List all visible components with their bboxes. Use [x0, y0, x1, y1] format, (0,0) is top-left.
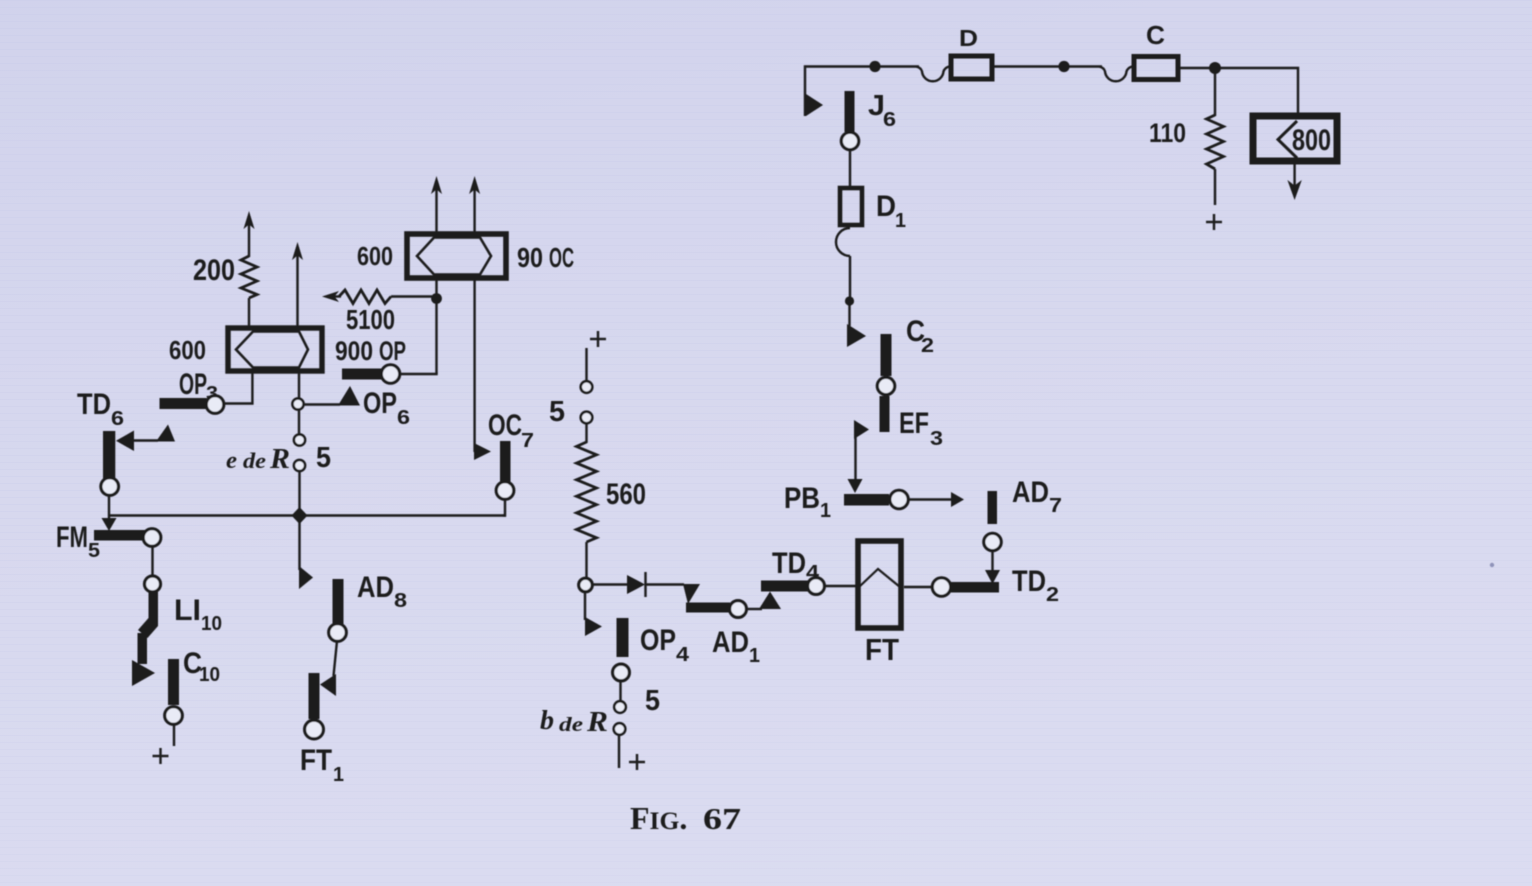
wire coil box down centre [298, 371, 300, 399]
label 90 OC [517, 242, 574, 273]
arrowhead at C2 [847, 324, 866, 347]
wire rail A to D hook [875, 65, 919, 67]
svg-text:D: D [959, 25, 978, 51]
svg-text:LI: LI [174, 594, 201, 627]
svg-text:FT: FT [865, 632, 899, 667]
resistor 200 [241, 256, 257, 298]
terminal circle lower [581, 412, 593, 424]
contact bar LI10 lower [138, 633, 148, 664]
wire plus down [585, 348, 587, 381]
label FM5 [56, 521, 100, 562]
main horizontal wire [108, 514, 506, 516]
wire D to junction B [994, 65, 1064, 67]
FT inner chevron [859, 569, 900, 587]
label 5 at 560 chain [549, 396, 565, 428]
heat coil C box [1134, 57, 1178, 80]
wire centre down [298, 409, 300, 435]
label 800 [1292, 124, 1331, 157]
label TD4 [772, 547, 820, 584]
wire OP4 down [619, 681, 621, 701]
label b de R [540, 705, 608, 738]
label 5100 [346, 304, 395, 335]
svg-text:TD: TD [1012, 565, 1046, 598]
svg-text:1: 1 [895, 210, 906, 232]
contact bar C2 [881, 334, 892, 376]
wire C10 down [173, 725, 175, 747]
svg-text:R: R [269, 444, 290, 475]
wire dot to arrowhead [848, 305, 850, 326]
svg-text:6: 6 [397, 407, 410, 429]
contact point circle FM5 [143, 529, 161, 547]
wire 110 down [1214, 169, 1216, 205]
wire 200 to coil box [248, 298, 250, 327]
svg-text:5: 5 [645, 685, 660, 717]
heat coil D box [951, 56, 992, 79]
armature triangle OP6 [338, 386, 360, 406]
svg-text:110: 110 [1149, 118, 1186, 148]
junction dot under D1 [845, 296, 854, 305]
svg-text:200: 200 [193, 254, 235, 287]
label OP6 [363, 387, 410, 429]
svg-text:1: 1 [333, 764, 344, 786]
label FT1 [300, 744, 344, 786]
svg-text:AD: AD [357, 571, 394, 604]
svg-text:10: 10 [201, 613, 222, 635]
lens inside 600 box [236, 332, 308, 368]
contact bar OP4 [617, 618, 629, 657]
svg-text:600: 600 [169, 335, 206, 365]
armature triangle under TD4 [759, 592, 781, 610]
svg-text:PB: PB [784, 482, 820, 515]
label 600 left [169, 335, 206, 365]
wire AD1 circle to TD4 triangle [747, 608, 762, 610]
arrowhead right of PB1 [951, 492, 964, 507]
contact bar J1 (J6 spring) [845, 91, 855, 132]
svg-text:TD: TD [77, 388, 111, 421]
svg-text:R: R [586, 707, 608, 738]
label OP3 [179, 368, 218, 405]
contact point circle OP3 [206, 396, 224, 414]
resistor 560 [577, 442, 597, 542]
heat coil hook before C [1099, 67, 1132, 82]
main junction diamond [292, 507, 308, 524]
svg-text:560: 560 [606, 478, 646, 511]
contact point circle AD8 [329, 624, 347, 642]
contact bar TD4 [761, 581, 808, 592]
diode CR1 [627, 572, 646, 597]
wire D1 down [849, 256, 851, 298]
wire 900OP to 90OC box [400, 373, 438, 375]
label OP4 [640, 624, 690, 666]
svg-text:8: 8 [394, 590, 407, 612]
label OC7 [488, 409, 534, 452]
junction dot at 5100 [431, 293, 442, 304]
contact bar FM5 [94, 530, 146, 541]
fuse D1 box [840, 188, 862, 225]
wire junction to diode [592, 583, 627, 585]
resistor 110 [1207, 115, 1224, 169]
wire OC7 to main wire [503, 499, 505, 516]
svg-text:7: 7 [521, 430, 534, 452]
svg-text:7: 7 [1049, 495, 1062, 517]
svg-text:EF: EF [899, 407, 929, 440]
contact point circle TD4 [808, 578, 825, 595]
svg-text:5100: 5100 [346, 304, 395, 335]
terminal circle b upper [614, 701, 626, 713]
label 200 [193, 254, 235, 287]
label FT [865, 632, 899, 667]
svg-text:2: 2 [921, 335, 934, 357]
label 110 [1149, 118, 1186, 148]
svg-text:4: 4 [676, 644, 690, 666]
contact bar 900OP [342, 369, 383, 380]
battery plus bottom of b chain [629, 754, 645, 770]
svg-text:4: 4 [806, 562, 820, 584]
battery plus under 110 [1206, 214, 1222, 230]
wire B to C hook [1064, 65, 1102, 67]
wire TD2 to FT [904, 586, 932, 588]
contact point circle PB1 [890, 490, 908, 508]
wire 560 to junction [585, 542, 587, 579]
contact bar AD8 [333, 579, 344, 624]
lens inside 90OC box [417, 238, 491, 275]
wire PB1 to arrow [908, 498, 952, 500]
arrowhead onto PB1 [848, 479, 863, 493]
label C2 [906, 315, 934, 357]
contact bar TD6 [103, 431, 115, 479]
armature arrowhead at AD8 [299, 566, 313, 589]
svg-text:AD: AD [712, 626, 749, 659]
arrow up from coil box [292, 242, 303, 327]
wire FM5 down [151, 547, 153, 577]
armature triangle LI10 [132, 660, 155, 686]
label AD8 [357, 571, 407, 612]
terminal circle e upper [294, 434, 305, 445]
contact point circle LI10 [145, 576, 161, 592]
retard coil 600 box [228, 328, 322, 371]
wire C to junction E [1178, 67, 1215, 69]
junction dot E on top rail [1209, 62, 1221, 74]
wire E down to resistor 110 [1214, 68, 1216, 116]
armature triangle at TD6 [116, 431, 134, 452]
svg-text:5: 5 [549, 396, 565, 428]
label EF3 [899, 407, 943, 450]
wire AD7 down [991, 551, 993, 572]
svg-text:1: 1 [820, 500, 831, 522]
svg-text:de: de [559, 714, 583, 736]
wire OP6 branch [304, 403, 340, 405]
contact point circle OP4 [613, 664, 630, 681]
svg-text:5: 5 [88, 540, 100, 562]
terminal circle upper [581, 381, 593, 393]
label J6 [868, 90, 896, 131]
wire FT to TD4 circle [824, 585, 858, 587]
label AD7 [1012, 476, 1062, 517]
svg-text:3: 3 [930, 428, 943, 450]
contact point circle AD1 [730, 601, 747, 618]
wire top rail left drop [805, 67, 873, 117]
armature flag FT1 [320, 674, 336, 696]
svg-text:D: D [876, 190, 896, 223]
svg-text:90: 90 [517, 242, 543, 273]
svg-text:OP: OP [179, 368, 207, 401]
wire J6 to D1 [849, 150, 851, 187]
arrowhead onto FM5 [102, 518, 117, 531]
svg-text:6: 6 [883, 109, 896, 131]
contact bar LI10 upper [149, 592, 159, 626]
contact bar AD7 [988, 491, 998, 524]
armature triangle of AD1 [683, 584, 700, 604]
svg-text:OC: OC [488, 409, 522, 442]
label 5 at b chain [645, 685, 660, 717]
contact point circle FT1 [305, 720, 324, 739]
junction circle OP6 [292, 398, 303, 409]
label e de R [226, 444, 290, 475]
wire TD6 armature [133, 439, 158, 441]
arrow up from resistor 200 [244, 211, 255, 257]
svg-text:e: e [226, 448, 237, 474]
label TD2 [1012, 565, 1059, 606]
svg-text:FIG.: FIG. [630, 800, 687, 836]
svg-text:FM: FM [56, 521, 88, 554]
battery plus top of 560 chain [590, 331, 606, 347]
wire OP3 to coil box [224, 371, 252, 404]
contact bar OC7 [500, 441, 511, 482]
arrowhead at OP4 [585, 617, 602, 636]
contact bar EF3 [880, 396, 890, 432]
wire EF3 armature down [854, 430, 856, 482]
svg-text:5: 5 [316, 442, 331, 474]
arrowhead at J6 [806, 94, 823, 116]
label LI10 [174, 594, 222, 635]
wire diode to AD1 [646, 583, 684, 585]
svg-text:10: 10 [199, 664, 220, 686]
label D1 [876, 190, 906, 232]
svg-text:OP: OP [363, 387, 397, 420]
contact point circle AD7 [984, 533, 1001, 550]
armature arrowhead at OC7 [474, 443, 491, 460]
wire e chain to main junction [298, 471, 300, 516]
wire AD8 to FT1 [334, 641, 338, 676]
svg-text:2: 2 [1046, 584, 1059, 606]
label 560 [606, 478, 646, 511]
caption FIG. 67 [630, 800, 741, 836]
contact bar C10 [168, 659, 179, 705]
retard coil 90OC box [407, 234, 506, 278]
contact point circle C10 [165, 707, 183, 725]
speck right margin [1490, 563, 1494, 567]
junction dot A on top rail [869, 61, 880, 72]
contact bar FT1 [309, 673, 320, 719]
svg-text:TD: TD [772, 547, 806, 580]
label PB1 [784, 482, 831, 522]
label AD1 [712, 626, 760, 667]
arrow up right above 90OC box [469, 176, 480, 232]
svg-text:900: 900 [335, 336, 373, 366]
wire centre down to AD8 arrow [298, 516, 300, 571]
chevron inside 800 box [1278, 121, 1297, 158]
svg-text:800: 800 [1292, 124, 1331, 157]
svg-text:FT: FT [300, 744, 332, 777]
label 900 OP [335, 336, 406, 366]
battery plus under C10 [153, 748, 169, 764]
svg-text:AD: AD [1012, 476, 1049, 509]
svg-text:OC: OC [549, 242, 574, 273]
arrowhead onto TD2 [985, 570, 1000, 584]
svg-text:1: 1 [749, 645, 760, 667]
wire to resistor 560 [585, 424, 587, 444]
contact point circle TD2 [932, 578, 950, 596]
label TD6 [77, 388, 124, 430]
heat coil hook before D [916, 67, 949, 82]
svg-text:C: C [1146, 20, 1165, 50]
contact point circle OC7 [496, 482, 514, 500]
contact bar TD2 [951, 582, 999, 593]
svg-text:OP: OP [640, 624, 676, 657]
contact point circle 900OP [381, 365, 399, 383]
label D [959, 25, 978, 51]
contact point circle TD6 [101, 478, 119, 496]
wire 90OC box right down to OC7 [473, 278, 475, 452]
arrow up left above 90OC box [431, 176, 442, 232]
wire 800 down with arrowhead [1287, 161, 1301, 200]
armature flag of EF3 [854, 420, 869, 439]
contact point circle of J6 [841, 132, 858, 149]
contact bar OP3 [160, 398, 207, 409]
wire junction down [584, 592, 586, 620]
contact point circle C2/EF3 [877, 377, 894, 394]
svg-text:de: de [243, 448, 266, 473]
contact bar AD1 [686, 603, 730, 613]
armature end triangle TD6 [156, 425, 175, 442]
terminal circle b lower [614, 723, 626, 735]
svg-text:b: b [540, 705, 554, 735]
wire E to 800 box [1215, 68, 1298, 114]
svg-text:67: 67 [703, 801, 741, 836]
relay FT box [858, 541, 901, 628]
label 5 at e chain [316, 442, 331, 474]
terminal circle e lower [294, 460, 305, 471]
retard coil 800 box [1253, 116, 1337, 161]
label C10 [183, 647, 220, 686]
resistor 5100 [339, 290, 432, 304]
svg-text:6: 6 [111, 408, 124, 430]
svg-text:600: 600 [357, 241, 393, 271]
label 600 right [357, 241, 393, 271]
contact bar LI10 step [138, 618, 158, 638]
junction circle of 560 chain [579, 578, 593, 592]
wire 90OC box left down [435, 278, 437, 374]
fuse D1 hook [836, 228, 850, 256]
contact bar PB1 [844, 494, 889, 506]
wire b chain down [618, 735, 620, 768]
junction dot B on top rail [1058, 61, 1069, 72]
arrowhead left of 5100 [322, 291, 341, 302]
wire TD6 down [108, 496, 110, 522]
label C [1146, 20, 1165, 50]
svg-text:OP: OP [379, 336, 406, 366]
